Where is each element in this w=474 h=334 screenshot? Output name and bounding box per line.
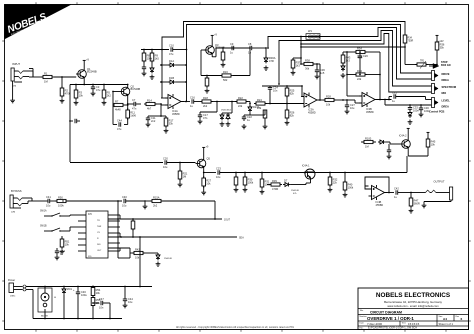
svg-text:1k3: 1k3: [346, 59, 351, 63]
resistor R8: [142, 49, 153, 67]
wire deck top: [141, 49, 187, 51]
svg-text:E:\PCAD\PROTEL\ODR-1\ODR-1_OM.: E:\PCAD\PROTEL\ODR-1\ODR-1_OM.SCH: [368, 327, 417, 330]
label +12V: [438, 40, 444, 43]
supply Q5: [202, 146, 209, 156]
svg-text:DREA: DREA: [442, 105, 449, 109]
jack J3 tip contact: [13, 198, 32, 201]
diode D8: [378, 140, 385, 144]
svg-text:R16: R16: [223, 70, 228, 74]
svg-text:35k: 35k: [440, 46, 445, 50]
wire bus SPECTRUM: [279, 31, 432, 87]
node out: [410, 192, 419, 194]
wire supply rail: [70, 84, 128, 86]
wire 555 pin links: [119, 215, 121, 251]
svg-text:OVERDRIVE 1 / ODR-1: OVERDRIVE 1 / ODR-1: [367, 316, 414, 321]
svg-text:R42: R42: [135, 247, 140, 251]
svg-text:R38: R38: [305, 58, 310, 62]
wire power top rail: [26, 286, 152, 288]
svg-text:C20: C20: [163, 156, 168, 160]
wire Q1 emitter to rail: [83, 81, 85, 85]
wire tone top: [262, 85, 302, 87]
svg-text:D1A: D1A: [169, 59, 174, 63]
wire Q2 out: [128, 103, 131, 105]
diode D1B link: [160, 76, 187, 84]
diode ZD1: [150, 66, 155, 79]
svg-text:2k2: 2k2: [203, 104, 208, 108]
resistor R9: [150, 49, 159, 66]
resistor R11: [126, 105, 137, 125]
capacitor C33: [408, 104, 420, 112]
svg-text:R39: R39: [272, 179, 277, 183]
wire regulator taps: [44, 286, 46, 320]
resistor R5: [102, 84, 112, 105]
wire x301 to minus: [300, 58, 302, 65]
svg-text:1N4148x2: 1N4148x2: [221, 110, 232, 112]
wire IC3A minus riser: [301, 85, 304, 96]
svg-text:100u: 100u: [81, 293, 87, 297]
svg-text:10k: 10k: [135, 256, 140, 260]
wire Q1 collector supply: [83, 59, 90, 67]
svg-text:470R: 470R: [272, 187, 278, 191]
diode R24A: [248, 104, 260, 116]
svg-text:Sheet 1 of 1: Sheet 1 of 1: [439, 322, 454, 326]
diode D4: [341, 64, 346, 78]
output jack J2: [434, 180, 453, 201]
svg-text:560R: 560R: [414, 202, 420, 206]
wire power bottom rail: [33, 318, 122, 320]
capacitor C8: [248, 42, 262, 55]
resistor R2: [60, 77, 71, 103]
svg-text:D1B: D1B: [169, 76, 174, 80]
switch SW1B: [40, 226, 78, 232]
svg-text:Number: Number: [360, 316, 367, 318]
resistor R28: [323, 94, 343, 106]
svg-text:C9: C9: [230, 42, 234, 46]
svg-text:10k: 10k: [79, 94, 84, 98]
svg-text:82k: 82k: [290, 92, 295, 96]
svg-text:TR: TR: [97, 220, 100, 222]
wire 555 net2: [108, 236, 244, 239]
svg-text:100u: 100u: [424, 109, 430, 113]
capacitor C7: [131, 98, 141, 111]
resistor R47: [409, 193, 420, 214]
svg-text:SW1A: SW1A: [40, 210, 47, 213]
svg-text:C7: C7: [132, 98, 136, 102]
wire spectrum link: [391, 84, 393, 86]
svg-text:1k3: 1k3: [296, 64, 301, 68]
resistor R34 (series in bus): [403, 35, 413, 65]
label DRIVE: [442, 72, 450, 76]
resistor R140: [131, 219, 135, 237]
svg-text:1N4148: 1N4148: [291, 190, 299, 192]
svg-text:4558D: 4558D: [308, 111, 316, 115]
svg-text:BOX GN: BOX GN: [441, 64, 451, 67]
wire bus outer (+12V loop): [162, 22, 405, 99]
resistor R15A: [145, 195, 215, 207]
svg-text:C8: C8: [248, 42, 252, 46]
resistor R27: [201, 173, 211, 195]
capacitor C4A: [113, 105, 128, 131]
node x301 riser: [300, 36, 302, 58]
jack J1 sleeve wire: [12, 82, 22, 88]
svg-text:10k: 10k: [206, 182, 211, 186]
wire input: [29, 69, 42, 78]
wire Q2 collector: [127, 84, 129, 86]
connector plug P2: [432, 84, 439, 94]
node tone A: [249, 103, 251, 105]
svg-text:4558D: 4558D: [366, 110, 374, 114]
resistor R14: [144, 98, 161, 110]
svg-text:47n: 47n: [132, 107, 137, 111]
svg-text:100k: 100k: [248, 181, 254, 185]
resistor R26: [285, 104, 295, 126]
svg-text:6: 6: [461, 317, 463, 321]
resistor R3: [74, 84, 84, 105]
label Power: [8, 279, 15, 282]
svg-text:R22: R22: [238, 96, 243, 100]
svg-text:SPECTRUM: SPECTRUM: [442, 85, 457, 89]
svg-text:C31: C31: [392, 90, 397, 94]
wire aux box: [118, 253, 130, 258]
svg-text:A4: A4: [443, 317, 447, 321]
node bypass drop: [117, 200, 119, 258]
svg-text:IC4A-1: IC4A-1: [302, 165, 310, 168]
resistor R16A: [220, 70, 250, 82]
svg-text:10n: 10n: [99, 306, 104, 310]
wire IC1A minus: [161, 97, 168, 99]
capacitor C17: [198, 113, 209, 124]
wire IC3B fb riser: [379, 52, 381, 100]
op-amp IC3B: [359, 92, 378, 114]
jack J1 tip contact: [14, 71, 33, 77]
svg-text:LEVEL: LEVEL: [442, 99, 451, 103]
connector plug P3: [432, 98, 439, 108]
diode D1A link: [160, 59, 187, 67]
switch SW1A: [40, 210, 78, 217]
trimmer TR1: [405, 61, 437, 69]
diode R30A: [264, 48, 276, 70]
ground output jack: [422, 203, 427, 208]
svg-text:R28: R28: [326, 94, 331, 98]
svg-text:10u: 10u: [216, 175, 221, 179]
svg-text:1M: 1M: [183, 175, 187, 179]
svg-text:4558D: 4558D: [172, 112, 180, 116]
svg-text:BC549B: BC549B: [87, 70, 97, 74]
wire bus DREA (W1 net): [268, 28, 432, 80]
capacitor C4 (shield tap): [69, 119, 80, 123]
wire IC4B fb box: [365, 177, 389, 193]
svg-text:C26: C26: [363, 54, 368, 58]
wire Q2 base net: [112, 91, 119, 105]
wire Q4 collector: [407, 128, 410, 137]
output switch contact: [419, 190, 450, 192]
capacitor C9: [230, 42, 238, 55]
svg-text:C42: C42: [394, 186, 399, 190]
resistor R22: [232, 96, 250, 108]
svg-text:R14: R14: [147, 98, 152, 102]
transistor Q5: [196, 156, 211, 170]
diode D2: [220, 113, 225, 126]
resistor R43: [341, 52, 351, 66]
IC5 left pins: [78, 215, 86, 251]
wire R15A drop: [215, 201, 231, 222]
svg-text:22k: 22k: [357, 77, 362, 81]
svg-text:2k2: 2k2: [107, 94, 112, 98]
svg-text:R34: R34: [357, 46, 362, 50]
jumper W1: [306, 29, 320, 39]
wire Q5 emitter: [203, 171, 205, 174]
resistor R42A (fb upper): [354, 46, 380, 58]
jack J3 sleeve wire: [11, 208, 21, 214]
wire drop to power: [139, 236, 141, 287]
svg-text:82k: 82k: [290, 114, 295, 118]
node clip B: [222, 101, 233, 113]
svg-text:C23: C23: [216, 166, 221, 170]
node IC1A plus: [160, 103, 168, 105]
power pin circles: [23, 285, 26, 291]
svg-text:7-Dec-2000: 7-Dec-2000: [367, 322, 382, 326]
capacitor C27: [345, 99, 356, 114]
resistor R26A: [250, 110, 267, 129]
svg-text:100k: 100k: [348, 186, 354, 190]
capacitor C23: [204, 166, 222, 179]
regulator box: [38, 288, 52, 312]
resistor R19: [205, 75, 210, 93]
svg-text:J2M: J2M: [11, 212, 15, 214]
wire power return: [26, 290, 33, 319]
svg-text:C41: C41: [46, 195, 51, 199]
wire IC4B out: [385, 192, 395, 194]
label SPECTRUM: [442, 85, 457, 89]
svg-text:2k2: 2k2: [153, 204, 158, 208]
svg-text:4k48: 4k48: [115, 108, 121, 112]
resistor R100: [361, 136, 376, 148]
svg-text:47u: 47u: [96, 88, 101, 92]
svg-text:47R: 47R: [269, 59, 274, 63]
wire jack sleeve: [424, 200, 451, 203]
label LEVEL: [442, 99, 451, 103]
wire out bus: [220, 172, 407, 174]
resistor R24: [254, 98, 270, 110]
wire IC3B out: [375, 99, 392, 101]
transistor Q2: [120, 84, 141, 98]
resistor R32: [328, 172, 338, 192]
svg-text:R24: R24: [257, 98, 262, 102]
resistor R54: [91, 286, 101, 298]
wire +12V feed: [300, 46, 406, 48]
svg-text:10u: 10u: [46, 204, 51, 208]
svg-text:22k: 22k: [257, 106, 262, 110]
transistor Q3: [204, 43, 225, 57]
wire shield left edge: [69, 88, 71, 162]
wire Q3 bottom: [201, 75, 222, 77]
svg-text:R44: R44: [357, 69, 362, 73]
resistor R45: [408, 132, 436, 156]
capacitor C3: [91, 84, 101, 96]
svg-text:File:: File:: [360, 328, 364, 330]
supply Q3: [211, 34, 218, 43]
svg-text:R100: R100: [365, 136, 372, 140]
svg-text:Q5: Q5: [207, 156, 211, 160]
wire Q4 base link: [385, 142, 400, 144]
jack J3 ring contact: [13, 201, 28, 206]
wire bus DRIVE: [187, 25, 432, 102]
svg-text:Rev: Rev: [456, 316, 460, 318]
svg-text:www.nobels.com - email: info: www.nobels.com - email: info@nobels.com: [387, 304, 439, 308]
arrow pin STOP BOX: [429, 64, 439, 69]
capacitor C10: [169, 43, 174, 56]
label Control PCB: [429, 110, 445, 114]
svg-text:10u: 10u: [128, 300, 133, 304]
resistor R42: [130, 247, 158, 259]
label DREA2: [442, 105, 449, 109]
svg-text:SW1B: SW1B: [40, 226, 47, 228]
capacitor C26: [358, 51, 369, 75]
transistor Q1: [76, 67, 97, 81]
svg-text:R18: R18: [203, 96, 208, 100]
capacitor C47: [93, 297, 111, 320]
transistor Q4 (IC4A-2): [399, 135, 410, 152]
resistor R17: [160, 115, 174, 133]
svg-text:MIX: MIX: [442, 91, 447, 95]
wire fb top: [343, 51, 354, 53]
svg-text:DRIVE: DRIVE: [442, 72, 450, 76]
resistor R30: [243, 172, 254, 192]
wire IC3A out: [317, 99, 325, 101]
svg-text:4558D: 4558D: [376, 203, 384, 207]
svg-text:OUTPUT: OUTPUT: [434, 180, 445, 184]
svg-text:C16: C16: [190, 95, 195, 99]
wire Q4 down: [406, 156, 408, 173]
capacitor C22: [242, 115, 253, 129]
svg-text:J3BC: J3BC: [10, 296, 16, 298]
wire riser to W1 net: [267, 44, 269, 49]
capacitor C35b: [387, 150, 392, 159]
svg-text:36k: 36k: [305, 67, 310, 71]
wire level out: [384, 99, 431, 105]
wire feed 2: [278, 83, 280, 85]
capacitor C16: [190, 95, 200, 108]
wire to IC3B plus: [355, 100, 362, 103]
svg-text:BYPASS: BYPASS: [11, 189, 22, 193]
svg-text:10k: 10k: [326, 103, 331, 107]
svg-text:22k: 22k: [333, 181, 338, 185]
svg-text:47u: 47u: [117, 127, 122, 131]
diode D9: [156, 253, 173, 266]
svg-text:CIRCUIT DIAGRAM: CIRCUIT DIAGRAM: [370, 310, 402, 314]
resistor R25: [285, 85, 295, 104]
resistor R37: [291, 57, 302, 75]
wire fb node down: [160, 104, 162, 116]
svg-text:IC4A-2: IC4A-2: [399, 135, 407, 138]
node C8 out: [262, 47, 267, 49]
jack J1 sleeve ground: [10, 81, 15, 103]
resistor R40: [343, 172, 354, 197]
svg-text:10u: 10u: [163, 165, 168, 169]
svg-text:1k96: 1k96: [130, 114, 136, 118]
wire Q2 emitter: [127, 99, 129, 105]
input jack J1: [11, 62, 20, 81]
resistor R7: [114, 99, 129, 111]
wire bus MIX: [301, 34, 432, 93]
node clip A: [216, 101, 232, 103]
svg-text:1N4148: 1N4148: [164, 258, 172, 260]
resistor R50: [55, 195, 122, 207]
svg-text:R1: R1: [44, 71, 48, 75]
capacitor C41: [44, 195, 55, 208]
label clip diodes: [221, 110, 232, 112]
svg-text:750R: 750R: [408, 40, 414, 43]
svg-text:10n: 10n: [273, 89, 278, 93]
diode D3: [226, 113, 231, 126]
diode D6: [408, 111, 413, 125]
svg-text:R7: R7: [115, 99, 119, 103]
transistor Q6: [302, 165, 315, 180]
svg-text:TR1: TR1: [420, 61, 425, 63]
capacitor C11: [146, 116, 161, 127]
wire tone to IC3A: [287, 103, 304, 105]
svg-text:10k: 10k: [65, 243, 70, 247]
svg-text:33k: 33k: [169, 122, 174, 126]
svg-text:Control PCB: Control PCB: [429, 110, 445, 114]
resistor R21: [178, 162, 188, 187]
svg-text:IC5: IC5: [88, 213, 92, 216]
svg-text:Power: Power: [8, 279, 15, 282]
capacitor C31: [388, 90, 431, 103]
wire 555 net1: [108, 218, 222, 220]
wire to C8: [238, 47, 248, 49]
node tone B: [269, 103, 287, 105]
svg-text:W1: W1: [308, 29, 312, 33]
wire fb mid: [346, 52, 381, 81]
resistor R39: [267, 179, 282, 191]
capacitor C24: [268, 86, 279, 104]
op-amp IC1A: [165, 94, 184, 116]
svg-text:47u: 47u: [169, 52, 174, 56]
svg-text:C47: C47: [99, 297, 104, 301]
connector plug P1: [432, 71, 439, 81]
IC5 right pins: [108, 215, 120, 251]
svg-text:DIS: DIS: [97, 244, 101, 246]
svg-text:10k: 10k: [431, 143, 436, 147]
svg-text:1k5: 1k5: [155, 57, 160, 61]
svg-text:4k7: 4k7: [147, 107, 152, 111]
wire Q3 base net: [201, 50, 206, 76]
title block: [358, 288, 469, 330]
svg-text:C10: C10: [169, 43, 174, 47]
label MIX: [442, 91, 447, 95]
wire Q3 right riser: [249, 47, 251, 75]
wire shield bottom to Q5: [70, 162, 163, 164]
resistor R1: [41, 71, 54, 83]
svg-text:10u: 10u: [122, 204, 127, 208]
svg-text:C40: C40: [122, 195, 127, 199]
capacitor C40: [122, 195, 145, 208]
svg-text:Bernerstrasse 42, 22765 Hambur: Bernerstrasse 42, 22765 Hamburg, Germany: [384, 300, 442, 304]
svg-text:NOBELS ELECTRONICS: NOBELS ELECTRONICS: [376, 292, 451, 299]
svg-text:R15A: R15A: [153, 195, 160, 199]
capacitor C35: [388, 144, 390, 150]
wire emitter bus: [216, 47, 250, 49]
capacitor C36: [315, 63, 326, 79]
capacitor C44: [123, 286, 134, 308]
svg-text:DREA: DREA: [442, 78, 449, 82]
svg-text:47n: 47n: [203, 116, 208, 120]
bypass jack J3: [10, 189, 22, 208]
capacitor C46: [73, 286, 87, 320]
label DREA1: [442, 78, 449, 82]
op-amp IC4B: [369, 185, 388, 207]
